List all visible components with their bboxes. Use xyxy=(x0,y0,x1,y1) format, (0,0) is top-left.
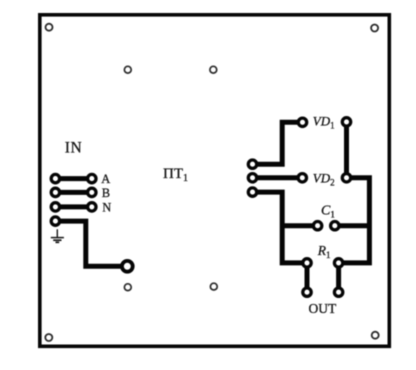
wire VD1-VD2 right link xyxy=(344,122,349,178)
wire C1 left branch xyxy=(282,223,317,228)
svg-text:IN: IN xyxy=(65,139,83,156)
mounting hole bottom-right xyxy=(372,332,379,339)
svg-text:OUT: OUT xyxy=(309,301,337,316)
pad ground xyxy=(51,217,59,225)
svg-text:ПТ1: ПТ1 xyxy=(163,166,188,184)
pad node 1 xyxy=(248,160,256,168)
pad B right xyxy=(88,188,96,196)
pad C1 left xyxy=(313,222,321,230)
wire input row N xyxy=(55,204,91,209)
ground xyxy=(51,229,64,242)
wire VD2 row xyxy=(253,175,303,180)
free hole lower-left xyxy=(124,284,131,291)
pad node 3 xyxy=(248,188,256,196)
wire input row A xyxy=(55,176,91,181)
mounting hole top-left xyxy=(46,24,53,31)
pad N left xyxy=(51,203,59,211)
pad N right xyxy=(88,203,96,211)
pad VD2 left xyxy=(298,174,306,182)
wire right bus trace xyxy=(339,178,370,263)
mounting hole top-right xyxy=(371,25,378,32)
wire OUT left link xyxy=(305,263,310,292)
pad C1 right xyxy=(331,222,339,230)
pad ground end xyxy=(122,261,133,272)
pad VD1 right xyxy=(342,118,350,126)
pad VD2 right xyxy=(342,174,350,182)
free hole upper-left xyxy=(124,66,131,73)
pad R1 right xyxy=(334,259,342,267)
free hole lower-right xyxy=(210,283,217,290)
svg-text:VD1: VD1 xyxy=(313,114,335,131)
svg-text:R1: R1 xyxy=(317,243,331,260)
wire input row B xyxy=(55,190,91,195)
pad R1 left xyxy=(303,259,311,267)
wire left bus trace xyxy=(253,192,308,263)
free hole upper-right xyxy=(210,66,217,73)
mounting hole bottom-left xyxy=(45,334,52,341)
pad OUT right xyxy=(334,288,342,296)
pad A right xyxy=(88,174,96,182)
wire VD1 left trace xyxy=(253,122,303,164)
svg-text:VD2: VD2 xyxy=(313,171,335,188)
svg-text:B: B xyxy=(102,186,110,200)
svg-text:C1: C1 xyxy=(321,204,335,220)
wire ground trace xyxy=(55,221,127,266)
pad A left xyxy=(51,174,59,182)
pad OUT left xyxy=(303,288,311,296)
svg-text:A: A xyxy=(101,172,110,186)
pad B left xyxy=(51,188,59,196)
svg-text:N: N xyxy=(102,200,111,214)
board outline xyxy=(40,15,390,347)
wire C1 right branch xyxy=(335,223,370,228)
pad node 2 xyxy=(248,174,256,182)
wire OUT right link xyxy=(336,263,341,292)
pad VD1 left xyxy=(298,118,306,126)
